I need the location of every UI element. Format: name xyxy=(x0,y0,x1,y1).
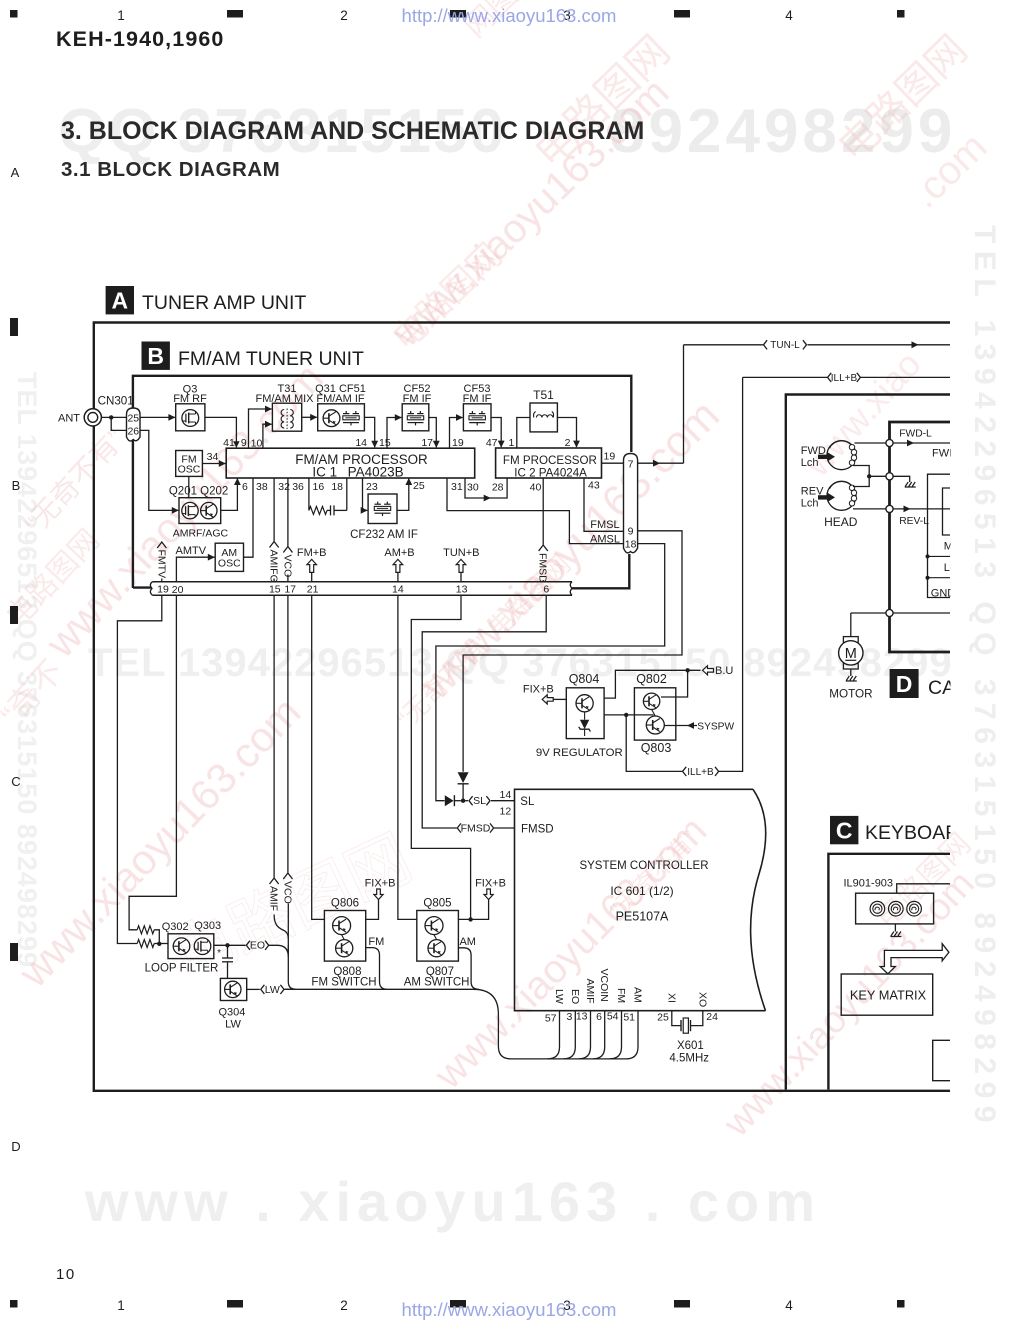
svg-text:X601: X601 xyxy=(677,1040,704,1052)
svg-text:TEL 13942296513 QQ 376315150 8: TEL 13942296513 QQ 376315150 892498299 xyxy=(968,225,1001,1130)
svg-text:FMSL: FMSL xyxy=(590,519,619,531)
label REV Lch with arrow xyxy=(801,485,835,509)
svg-text:1: 1 xyxy=(117,1298,125,1313)
svg-text:FM: FM xyxy=(368,936,384,948)
section title xyxy=(61,117,644,145)
svg-text:2: 2 xyxy=(340,8,348,23)
svg-text:34: 34 xyxy=(207,451,219,463)
pin 30 label xyxy=(467,482,479,494)
svg-text:SL: SL xyxy=(473,795,486,807)
pin 9 label xyxy=(241,437,247,449)
svg-text:18: 18 xyxy=(625,539,637,551)
block Q804 9V REGULATOR xyxy=(566,672,604,739)
node motor line xyxy=(851,609,950,616)
svg-text:LW: LW xyxy=(225,1019,241,1031)
motor M xyxy=(839,613,863,681)
svg-text:14: 14 xyxy=(392,584,404,596)
wire Q303 to EO flag xyxy=(214,943,246,947)
bus trunk to controller bottom xyxy=(474,989,639,1059)
svg-text:38: 38 xyxy=(256,481,268,493)
wire AM output to trunk xyxy=(458,948,478,990)
label FWD Lch with arrow xyxy=(801,445,835,469)
pin 15 label xyxy=(379,437,391,449)
svg-text:http://www.xiaoyu163.com: http://www.xiaoyu163.com xyxy=(402,5,617,26)
svg-text:36: 36 xyxy=(292,481,304,493)
wire bar pin21 FM+B to Q806 xyxy=(312,595,325,919)
svg-text:M: M xyxy=(845,646,857,662)
margin letters and bars xyxy=(10,165,21,1154)
block Q806 Q808 FM SWITCH xyxy=(311,898,376,989)
svg-text:1: 1 xyxy=(117,8,125,23)
svg-text:Q303: Q303 xyxy=(194,920,221,932)
trunk peel-off pin6 xyxy=(593,1011,605,1059)
svg-text:14: 14 xyxy=(500,789,512,801)
svg-text:IC 2 PA4024A: IC 2 PA4024A xyxy=(514,467,587,480)
pin 28 label xyxy=(492,482,504,494)
svg-text:19: 19 xyxy=(157,584,169,596)
wire connector pin9 FMSL route xyxy=(463,531,682,772)
pin 14 label xyxy=(355,437,367,449)
controller bottom pin labels rotated xyxy=(553,969,708,1008)
svg-text:24: 24 xyxy=(706,1011,718,1023)
net TUN-L line xyxy=(684,340,951,351)
pin 23 label xyxy=(366,481,378,493)
svg-text:B: B xyxy=(12,478,21,493)
mechanism inner box 2 xyxy=(943,488,951,535)
wire IC1 pin30 to IC2 pin28 xyxy=(465,478,507,501)
wire IC1 pin9 to T31 xyxy=(249,406,273,449)
unit D label xyxy=(890,669,1020,699)
wire CF53 to IC2 pin1 xyxy=(491,418,505,448)
svg-text:14: 14 xyxy=(355,437,367,449)
svg-text:57: 57 xyxy=(545,1013,557,1025)
svg-text:B.U: B.U xyxy=(715,665,733,677)
footer markers xyxy=(10,1298,905,1313)
svg-text:*: * xyxy=(217,948,221,959)
svg-text:2: 2 xyxy=(340,1298,348,1313)
block Q805 Q807 AM SWITCH xyxy=(404,898,470,989)
svg-text:Q806: Q806 xyxy=(331,898,359,910)
svg-text:FMTV: FMTV xyxy=(155,550,167,579)
block Q304 LW xyxy=(218,978,246,1030)
svg-text:31: 31 xyxy=(451,481,463,493)
supply flag AM+B xyxy=(384,547,414,582)
svg-text:T51: T51 xyxy=(533,388,554,402)
svg-text:FMSD: FMSD xyxy=(537,553,549,583)
wire bar pin20 to AM OSC with AMTV label xyxy=(176,545,215,582)
pin 43 label xyxy=(588,480,600,492)
block CF232 AM IF xyxy=(350,494,418,541)
wire CF52 to IC1 pin17 xyxy=(429,418,440,448)
net flag EO xyxy=(246,940,268,952)
svg-text:FM+B: FM+B xyxy=(297,547,327,559)
block Q802 Q803 xyxy=(634,672,675,755)
svg-text:17: 17 xyxy=(421,437,433,449)
svg-text:28: 28 xyxy=(492,482,504,494)
IC2 FM PROCESSOR PA4024A xyxy=(496,448,602,480)
wire FM OSC to Q201 xyxy=(188,476,190,497)
svg-text:25: 25 xyxy=(657,1012,669,1024)
trunk peel-off pin3 xyxy=(563,1011,575,1059)
svg-text:TUN-L: TUN-L xyxy=(770,340,800,351)
svg-text:3. BLOCK DIAGRAM AND SCHEMATIC: 3. BLOCK DIAGRAM AND SCHEMATIC DIAGRAM xyxy=(61,117,644,145)
label HEAD xyxy=(824,515,858,529)
svg-text:21: 21 xyxy=(307,584,319,596)
connector CN301 xyxy=(98,395,140,442)
block CF52 FM IF xyxy=(402,383,431,431)
svg-text:VCOIN: VCOIN xyxy=(598,969,610,1002)
svg-text:AMIF: AMIF xyxy=(584,979,596,1004)
pin 40 label xyxy=(530,482,542,494)
svg-text:XO: XO xyxy=(696,992,708,1007)
svg-text:7: 7 xyxy=(628,459,634,471)
svg-text:REV-L: REV-L xyxy=(899,516,929,527)
wire to ILL+B flag xyxy=(626,715,683,772)
diode AMSL to SL xyxy=(445,795,461,806)
svg-text:AMIFC: AMIFC xyxy=(268,550,280,583)
diode FMSL to SL xyxy=(458,772,469,800)
wire lamps supply xyxy=(897,884,950,893)
svg-text:FIX+B: FIX+B xyxy=(523,684,554,696)
header url watermark xyxy=(402,5,617,26)
svg-text:ILL+B: ILL+B xyxy=(831,373,858,384)
mechanism inner box 1 xyxy=(928,474,951,597)
pin 17 label xyxy=(421,437,433,449)
page number xyxy=(56,1266,76,1283)
node FWD-L xyxy=(886,439,893,446)
svg-text:TEL 13942296513 QQ 376315150 8: TEL 13942296513 QQ 376315150 892498299 xyxy=(88,641,953,685)
wire IC1 pin36 to bar pin17 with VCO flag xyxy=(281,478,293,582)
svg-text:ILL+B: ILL+B xyxy=(687,767,714,778)
label Lch cut xyxy=(944,562,962,574)
wire R1 to junction xyxy=(154,930,159,944)
net flag VCO below bar xyxy=(281,595,293,956)
watermark gray url bottom xyxy=(84,1170,821,1233)
svg-text:Q802: Q802 xyxy=(636,672,667,686)
svg-text:41: 41 xyxy=(223,437,235,449)
svg-text:EO: EO xyxy=(569,989,581,1004)
svg-text:54: 54 xyxy=(607,1011,619,1023)
wire connector pin7 to TUN-L riser xyxy=(638,345,684,467)
controller title xyxy=(579,860,708,924)
svg-text:15: 15 xyxy=(379,437,391,449)
pin 32 label xyxy=(278,481,290,493)
crystal X601 circuit xyxy=(672,1011,703,1033)
pin 6 label IC1 xyxy=(242,481,248,493)
wire bar pin6 FMSD to controller xyxy=(422,595,546,828)
unit C frame KEYBOARD UNIT xyxy=(828,854,950,1090)
pin 47 label xyxy=(486,437,498,449)
resistor R1 xyxy=(137,926,154,934)
wire bar pin14 AM+B to Q805 xyxy=(398,595,417,919)
key matrix data arrow xyxy=(880,944,949,974)
wire bar pin13 TUN+B jog to Q805 right xyxy=(411,595,470,919)
label MUTE cut xyxy=(944,541,975,553)
svg-text:OSC: OSC xyxy=(218,558,241,570)
pin 19 label top xyxy=(452,437,464,449)
supply flag FM+B xyxy=(297,547,327,582)
svg-text:FM PROCESSOR: FM PROCESSOR xyxy=(503,454,597,467)
wire Q31 to IC1 pin14 xyxy=(364,417,378,447)
block FM OSC xyxy=(176,451,203,477)
net flag AMIF below bar xyxy=(268,595,289,939)
antenna ANT xyxy=(58,409,101,426)
svg-text:TUNER AMP UNIT: TUNER AMP UNIT xyxy=(142,292,306,314)
block Q3 FM RF xyxy=(173,384,207,431)
trunk peel-off pin54 xyxy=(610,1011,622,1059)
unit B label xyxy=(142,342,365,371)
net flag FMSD xyxy=(457,822,514,834)
watermark gray TEL line middle xyxy=(88,641,953,685)
label MOTOR xyxy=(829,688,872,701)
wire IC2 pin40 FMSD to bar pin6 xyxy=(537,478,549,583)
capacitor at Q304 input xyxy=(217,945,233,978)
bus bar tuner bottom xyxy=(150,582,572,597)
page header markers xyxy=(10,8,905,23)
pin 25 label IC1 xyxy=(413,480,425,492)
label AM xyxy=(459,936,476,948)
svg-text:www . xiaoyu163 . com: www . xiaoyu163 . com xyxy=(84,1170,821,1233)
label FWD cut xyxy=(932,447,957,459)
svg-text:6: 6 xyxy=(543,584,549,596)
svg-text:A: A xyxy=(11,165,20,180)
svg-text:Q804: Q804 xyxy=(569,672,600,686)
wire B.U node into Q802 xyxy=(661,670,688,697)
svg-text:6: 6 xyxy=(596,1011,602,1023)
RC network IC1 pins16-18 xyxy=(309,478,347,515)
svg-text:LOOP FILTER: LOOP FILTER xyxy=(145,963,219,975)
svg-text:Q805: Q805 xyxy=(423,898,451,910)
svg-text:MOTOR: MOTOR xyxy=(829,688,872,701)
lamps IL901-903 xyxy=(844,878,934,924)
transformer T51 xyxy=(530,388,557,432)
svg-text:OSC: OSC xyxy=(178,464,201,476)
svg-text:ANT: ANT xyxy=(58,413,80,425)
svg-text:B: B xyxy=(147,343,164,369)
wire FM output to trunk xyxy=(366,948,387,990)
wire bar pin20 to loop filter R1 xyxy=(129,595,176,930)
svg-text:43: 43 xyxy=(588,480,600,492)
head coil REV xyxy=(827,481,857,510)
svg-text:D: D xyxy=(896,671,913,697)
svg-text:17: 17 xyxy=(284,584,296,596)
supply flag FIX+B at Q804 xyxy=(523,684,566,704)
svg-text:9: 9 xyxy=(241,437,247,449)
svg-text:26: 26 xyxy=(127,426,139,438)
svg-text:FWD-L: FWD-L xyxy=(899,429,932,440)
svg-text:4: 4 xyxy=(785,1298,793,1313)
svg-text:PE5107A: PE5107A xyxy=(616,910,669,924)
net ILL+B line top xyxy=(743,373,950,384)
watermark gray QQ numbers top xyxy=(58,97,956,166)
IC system controller IC601 xyxy=(515,789,766,1010)
node lch xyxy=(926,576,951,580)
label FM xyxy=(368,936,384,948)
svg-text:CF232 AM IF: CF232 AM IF xyxy=(350,529,418,541)
svg-text:EO: EO xyxy=(250,940,265,952)
svg-text:XI: XI xyxy=(665,993,677,1003)
svg-text:D: D xyxy=(11,1139,20,1154)
pin 38 label xyxy=(256,481,268,493)
svg-text:Q201 Q202: Q201 Q202 xyxy=(169,486,228,498)
subsection title xyxy=(61,158,280,181)
svg-text:AMRF/AGC: AMRF/AGC xyxy=(173,527,229,539)
wire FWD coil to node FWD-L xyxy=(855,442,886,444)
wire IC1 pin10 to T31 xyxy=(263,421,272,448)
supply flag FIX+B at Q805 xyxy=(458,878,506,922)
unit A label xyxy=(106,286,307,314)
svg-text:20: 20 xyxy=(172,584,184,596)
svg-text:A: A xyxy=(111,288,128,314)
ground lamps xyxy=(890,924,901,937)
wire connector pin18 AMSL route xyxy=(436,544,665,801)
svg-text:FM/AM TUNER UNIT: FM/AM TUNER UNIT xyxy=(178,348,364,370)
watermark gray vertical left xyxy=(12,372,42,968)
wire T31 to Q31 xyxy=(302,414,318,421)
wire AM OSC to IC1 pin38 xyxy=(244,478,254,557)
wire junction to Q302 xyxy=(154,942,168,946)
node SL junction xyxy=(461,799,465,803)
wire coils common to ground node xyxy=(853,466,886,487)
svg-text:Lch: Lch xyxy=(801,457,819,469)
svg-text:51: 51 xyxy=(623,1012,635,1024)
svg-text:AM: AM xyxy=(459,936,476,948)
svg-text:SL: SL xyxy=(520,796,535,808)
wire AM OSC output xyxy=(243,556,245,558)
wire CF232 to IC1 pin25 xyxy=(397,478,412,510)
model number xyxy=(56,27,225,51)
pin 10 label xyxy=(251,438,263,450)
svg-text:Q302: Q302 xyxy=(162,921,189,933)
svg-text:AMTV: AMTV xyxy=(176,545,207,557)
bus trunk vertical from flags xyxy=(285,945,296,989)
svg-text:C: C xyxy=(836,817,853,843)
net flag ILL+B lower xyxy=(683,377,743,778)
svg-text:12: 12 xyxy=(500,806,512,818)
svg-text:AM+B: AM+B xyxy=(384,547,414,559)
svg-text:15: 15 xyxy=(269,584,281,596)
svg-text:9: 9 xyxy=(628,526,634,538)
svg-text:VCO: VCO xyxy=(281,881,293,904)
label 9V REGULATOR xyxy=(536,747,623,759)
pin 16 label xyxy=(313,481,325,493)
svg-text:Q304: Q304 xyxy=(218,1007,245,1019)
wire FM OSC to IC1 pin34 xyxy=(202,451,225,467)
svg-text:FIX+B: FIX+B xyxy=(475,878,506,890)
wire REV-L into mechanism xyxy=(893,506,950,527)
wire IC1 pin31 AMSL to connector pin18 xyxy=(447,478,624,544)
unit C label xyxy=(830,816,1020,844)
pin 1 label xyxy=(509,437,515,449)
wire bar pin19 to loop filter R2 xyxy=(117,595,161,943)
svg-text:30: 30 xyxy=(467,482,479,494)
pin 31 label xyxy=(451,481,463,493)
svg-text:AM: AM xyxy=(632,987,644,1003)
block Q31 CF51 FM/AM IF xyxy=(315,383,366,431)
wire Q804 emitter to Q802 and ILL+B xyxy=(604,713,653,717)
wire pin26 down to Q201 xyxy=(140,430,179,513)
controller pin FMSD xyxy=(521,824,554,836)
svg-text:FM SWITCH: FM SWITCH xyxy=(311,976,376,988)
svg-text:13: 13 xyxy=(576,1011,588,1023)
wire Q3 to IC1 pin41 xyxy=(205,417,240,447)
svg-text:SYSPW: SYSPW xyxy=(697,721,734,732)
wire T51 to IC2 pin2 xyxy=(557,418,580,448)
wire pin25 to Q3 xyxy=(140,414,175,421)
wire ANT branch to pin26 xyxy=(111,417,126,430)
block AM OSC xyxy=(215,543,243,571)
svg-text:4: 4 xyxy=(785,8,793,23)
svg-text:FIX+B: FIX+B xyxy=(365,878,396,890)
svg-text:LW: LW xyxy=(553,989,565,1004)
IC1 FM/AM PROCESSOR PA4023B xyxy=(226,448,475,479)
FMSL label xyxy=(590,519,619,531)
svg-text:KEY MATRIX: KEY MATRIX xyxy=(850,988,927,1003)
controller bottom pin numbers xyxy=(545,1011,718,1025)
resistor R2 xyxy=(137,940,154,948)
svg-text:KEH-1940,1960: KEH-1940,1960 xyxy=(56,27,225,51)
svg-text:3.1 BLOCK DIAGRAM: 3.1 BLOCK DIAGRAM xyxy=(61,158,280,181)
pin 2 label xyxy=(565,437,571,449)
svg-text:SYSTEM CONTROLLER: SYSTEM CONTROLLER xyxy=(579,860,708,872)
label GND xyxy=(931,587,956,599)
wire IC2 pin43 FMSL to connector pin9 xyxy=(584,478,624,531)
node mute xyxy=(926,554,951,558)
svg-text:FM: FM xyxy=(615,988,627,1003)
signal SYSPW xyxy=(664,721,734,732)
svg-text:13: 13 xyxy=(456,584,468,596)
svg-text:FMSD: FMSD xyxy=(461,822,491,834)
svg-text:IL901-903: IL901-903 xyxy=(844,878,894,890)
svg-text:19: 19 xyxy=(604,451,616,463)
AMSL label xyxy=(590,533,620,545)
block Q201 Q202 AMRF/AGC xyxy=(169,486,229,540)
wire IC1 pin19 to CF53 xyxy=(450,414,464,448)
svg-text:AM SWITCH: AM SWITCH xyxy=(404,976,470,988)
svg-text:Lch: Lch xyxy=(801,497,819,509)
mechanism thick box xyxy=(890,422,951,652)
pin 18 label xyxy=(331,481,343,493)
svg-text:http://www.xiaoyu163.com: http://www.xiaoyu163.com xyxy=(402,1299,617,1320)
svg-text:VCO: VCO xyxy=(281,555,293,578)
supply flag TUN+B xyxy=(443,547,479,582)
transformer T31 FM/AM MIX xyxy=(255,383,314,431)
net flag FMTV xyxy=(155,542,167,582)
bus trunk horizontal xyxy=(285,988,475,990)
svg-text:HEAD: HEAD xyxy=(824,515,858,529)
svg-text:LW: LW xyxy=(265,984,280,996)
connector pins 7 9 18 xyxy=(624,454,638,553)
supply flag B.U xyxy=(703,665,734,677)
crystal labels xyxy=(669,1040,709,1065)
supply flag FIX+B at Q806 xyxy=(365,878,396,920)
unit B frame FM/AM TUNER UNIT xyxy=(133,376,631,589)
wire Q804 collector to B.U line xyxy=(604,668,700,698)
svg-text:AMIF: AMIF xyxy=(268,886,280,911)
wire ANT to CN301 pin25 xyxy=(101,415,126,419)
svg-text:9V REGULATOR: 9V REGULATOR xyxy=(536,747,623,759)
block Q302 Q303 LOOP FILTER xyxy=(145,920,222,975)
svg-text:10: 10 xyxy=(56,1266,76,1283)
svg-text:PA4023B: PA4023B xyxy=(348,464,404,479)
svg-text:IC 601 (1/2): IC 601 (1/2) xyxy=(610,884,673,898)
block CF53 FM IF xyxy=(463,383,492,431)
svg-text:18: 18 xyxy=(331,481,343,493)
wire IC2 top to T51 left xyxy=(517,418,530,448)
wire IC1 pin23 to CF232 xyxy=(361,478,368,514)
svg-text:AMSL: AMSL xyxy=(590,533,620,545)
trunk peel-off pin57 xyxy=(548,1011,560,1059)
